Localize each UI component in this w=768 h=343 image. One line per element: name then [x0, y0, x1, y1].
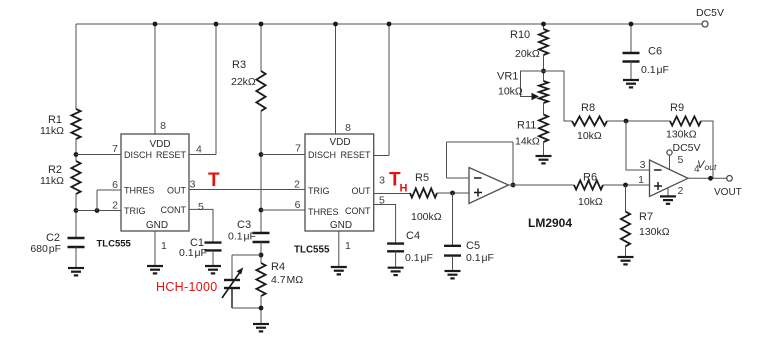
- svg-text:4.7 MΩ: 4.7 MΩ: [271, 274, 303, 286]
- resistor R8: [572, 116, 607, 125]
- capacitor C6: [623, 52, 640, 54]
- wire sensor left branch down: [231, 255, 233, 280]
- svg-text:2: 2: [112, 200, 118, 212]
- wire DISCH pin7 U1: [76, 154, 121, 156]
- svg-text:C4: C4: [406, 230, 420, 242]
- node junction rail pin8 U1: [153, 22, 158, 27]
- svg-text:R8: R8: [581, 102, 595, 114]
- wire C5 to ground: [452, 256, 454, 271]
- svg-text:DC5V: DC5V: [673, 142, 701, 154]
- node junction opamp1 plus: [450, 191, 455, 196]
- potentiometer VR1: [539, 81, 548, 103]
- svg-text:10kΩ: 10kΩ: [577, 130, 602, 142]
- wire R4 bottom: [260, 296, 262, 324]
- ground C2: [68, 267, 84, 269]
- resistor R2: [71, 161, 80, 194]
- wire VDD pin8 U2: [335, 24, 337, 134]
- terminal DC5V opamp2: [669, 155, 671, 170]
- wire R8 to R9: [607, 120, 670, 122]
- wire TRIG pin2 U1: [76, 210, 121, 212]
- node junction VR1 top: [541, 69, 546, 74]
- wire VDD pin8 U1: [154, 24, 156, 134]
- svg-text:VR1: VR1: [497, 71, 518, 83]
- svg-text:7: 7: [295, 143, 301, 155]
- svg-text:VDD: VDD: [329, 137, 350, 148]
- svg-text:130kΩ: 130kΩ: [639, 226, 670, 238]
- wire top DC5V power rail: [76, 23, 702, 25]
- wire R1 to R2: [75, 139, 77, 161]
- svg-text:100kΩ: 100kΩ: [411, 211, 442, 223]
- wire RESET riser U2: [388, 24, 390, 156]
- ground C4: [388, 267, 404, 269]
- ground C1: [205, 265, 221, 267]
- svg-text:DISCH: DISCH: [308, 150, 336, 160]
- svg-text:C6: C6: [648, 46, 662, 58]
- wire DISCH pin7 U2: [261, 154, 305, 156]
- svg-text:3: 3: [640, 159, 646, 171]
- wire C1 to ground: [212, 250, 214, 266]
- wire R6 to opamp2 plus: [603, 184, 650, 186]
- wire rail to C6: [630, 24, 632, 53]
- node junction R8 R9: [624, 119, 629, 124]
- svg-text:T: T: [208, 170, 220, 191]
- svg-text:10kΩ: 10kΩ: [578, 196, 603, 208]
- svg-text:CONT: CONT: [161, 205, 187, 215]
- wire rail to R10: [543, 24, 545, 29]
- wire CONT pin5 U2: [374, 205, 396, 244]
- resistor R4: [256, 263, 265, 296]
- svg-text:TRIG: TRIG: [308, 186, 330, 196]
- node junction rail pin8 U2: [333, 22, 338, 27]
- terminal VOUT: [727, 176, 733, 182]
- svg-text:H: H: [400, 183, 408, 195]
- wire R2 to C2: [75, 194, 77, 238]
- wire R10 to VR1: [543, 55, 545, 81]
- wire R9 to output node: [701, 121, 713, 178]
- node junction DISCH1: [74, 152, 79, 157]
- svg-text:OUT: OUT: [352, 186, 372, 196]
- terminal DC5V: [702, 21, 708, 27]
- wire C4 to ground: [395, 251, 397, 267]
- svg-text:C3: C3: [237, 219, 251, 231]
- resistor R10: [539, 29, 548, 55]
- wire R7 to ground: [625, 246, 627, 257]
- resistor R11: [539, 115, 548, 143]
- svg-text:1: 1: [638, 174, 644, 186]
- svg-text:3: 3: [379, 175, 385, 187]
- svg-text:0.1 μF: 0.1 μF: [179, 247, 207, 259]
- op-amp U3B LM2904 body: [650, 160, 689, 197]
- node junction DISCH2: [259, 152, 264, 157]
- wire opamp2 output: [688, 177, 727, 179]
- wire C2 to ground: [75, 247, 77, 268]
- svg-text:R3: R3: [232, 59, 246, 71]
- svg-text:10kΩ: 10kΩ: [498, 86, 523, 98]
- op-amp U3A plus symbol: [474, 192, 482, 194]
- capacitor C5: [452, 193, 454, 246]
- node junction rail RESET U1: [214, 22, 219, 27]
- node junction rail R10: [541, 22, 546, 27]
- wire opamp1 feedback right: [512, 142, 514, 185]
- svg-text:11kΩ: 11kΩ: [40, 125, 64, 137]
- node junction THRES2: [259, 208, 264, 213]
- svg-text:VOUT: VOUT: [714, 187, 742, 198]
- wire left column from rail down to R1: [75, 24, 77, 109]
- svg-text:7: 7: [112, 143, 118, 155]
- op-amp U3A minus symbol: [474, 177, 482, 179]
- svg-text:THRES: THRES: [308, 207, 339, 217]
- svg-text:6: 6: [295, 199, 301, 211]
- resistor R1: [71, 109, 80, 139]
- svg-text:5: 5: [678, 154, 684, 166]
- ground R11: [536, 155, 552, 157]
- svg-text:OUT: OUT: [167, 186, 187, 196]
- svg-text:RESET: RESET: [156, 150, 187, 160]
- wire opamp1 minus input: [447, 177, 470, 179]
- svg-text:5: 5: [379, 195, 385, 207]
- svg-text:R4: R4: [271, 261, 285, 273]
- node junction sensor top: [259, 253, 264, 258]
- wire opamp1 output to R6: [509, 184, 575, 186]
- svg-text:LM2904: LM2904: [528, 216, 572, 230]
- node junction rail C6: [629, 22, 634, 27]
- svg-text:CONT: CONT: [345, 206, 371, 216]
- node junction sensor bottom: [259, 306, 264, 311]
- svg-text:1: 1: [345, 240, 351, 252]
- svg-text:DC5V: DC5V: [696, 7, 724, 19]
- svg-text:R11: R11: [517, 120, 536, 132]
- capacitor C1: [205, 241, 222, 243]
- svg-text:4: 4: [196, 144, 202, 156]
- node junction TRIG1: [74, 208, 79, 213]
- svg-text:R10: R10: [510, 29, 530, 41]
- op-amp U3B plus symbol: [654, 185, 662, 187]
- svg-text:2: 2: [678, 185, 684, 197]
- svg-text:C5: C5: [466, 240, 480, 252]
- node junction rail RESET U2: [387, 22, 392, 27]
- svg-text:GND: GND: [146, 220, 168, 231]
- resistor R6: [574, 180, 603, 189]
- svg-text:4: 4: [694, 164, 700, 175]
- svg-text:0.1 μF: 0.1 μF: [228, 231, 256, 243]
- wire RESET pin4 U1: [189, 154, 216, 156]
- svg-text:8: 8: [345, 122, 351, 134]
- svg-text:THRES: THRES: [124, 186, 155, 196]
- svg-text:RESET: RESET: [340, 150, 371, 160]
- op-amp U3B minus symbol: [654, 169, 662, 171]
- wire R8R9 node down to opamp2 minus: [626, 121, 650, 170]
- svg-text:0.1 μF: 0.1 μF: [466, 252, 494, 264]
- ground R7: [618, 256, 634, 258]
- wire rail to R3: [260, 24, 262, 71]
- wire VR1 tap to R8: [544, 71, 573, 121]
- node junction output: [708, 176, 713, 181]
- wire R7 top: [625, 185, 627, 212]
- svg-text:3: 3: [190, 179, 196, 191]
- svg-text:2: 2: [294, 179, 300, 191]
- wire THRES pin6 U1: [97, 189, 121, 191]
- wire VR1 to R11: [543, 103, 545, 115]
- wire RESET riser U1: [215, 24, 217, 155]
- svg-text:0.1 μF: 0.1 μF: [405, 252, 433, 264]
- wire sensor top branch: [232, 254, 261, 256]
- wire OUT pin3 U2: [374, 193, 410, 195]
- svg-text:11kΩ: 11kΩ: [40, 175, 64, 187]
- svg-text:HCH-1000: HCH-1000: [156, 280, 217, 294]
- wire R3 down to C3: [260, 111, 262, 233]
- wire THRES branch vertical: [96, 190, 98, 211]
- svg-text:TLC555: TLC555: [294, 245, 330, 256]
- wire CONT pin5 U1: [189, 209, 213, 242]
- svg-text:VDD: VDD: [149, 139, 170, 150]
- svg-text:DISCH: DISCH: [124, 150, 152, 160]
- svg-text:680 pF: 680 pF: [30, 243, 61, 255]
- IC U1 TLC555 body: [121, 134, 189, 231]
- ground sensor: [253, 323, 269, 325]
- resistor R3: [256, 71, 265, 111]
- svg-text:R6: R6: [583, 172, 597, 184]
- svg-text:R5: R5: [415, 172, 429, 184]
- wire RESET pin4 U2: [374, 155, 389, 157]
- node junction opamp1 output: [511, 183, 516, 188]
- svg-text:22kΩ: 22kΩ: [231, 76, 256, 88]
- wire VR1 wiper loop: [521, 71, 544, 97]
- wire R11 to ground: [543, 142, 545, 156]
- resistor R7: [621, 212, 630, 247]
- sensor HCH-1000 variable capacitor: [224, 279, 240, 281]
- resistor R5: [410, 188, 437, 197]
- wire opamp1 feedback top: [447, 141, 514, 143]
- ground C6: [623, 79, 639, 81]
- IC U2 TLC555 body: [305, 134, 374, 231]
- resistor R9: [670, 116, 701, 125]
- node junction R6 R7: [623, 183, 628, 188]
- wire C6 to ground: [630, 62, 632, 81]
- ground opamp2: [660, 195, 676, 197]
- svg-text:6: 6: [112, 179, 118, 191]
- ground C5: [445, 270, 461, 272]
- capacitor C4: [387, 242, 404, 244]
- svg-text:0.1 μF: 0.1 μF: [641, 64, 669, 76]
- wire R5 to opamp1 plus: [437, 192, 469, 194]
- svg-text:TLC555: TLC555: [97, 239, 132, 250]
- node junction THRES branch: [95, 208, 100, 213]
- node junction rail R3: [259, 22, 264, 27]
- wire opamp1 feedback left: [446, 142, 448, 178]
- svg-text:R9: R9: [670, 102, 684, 114]
- ground U2 pin1: [331, 266, 347, 268]
- svg-text:GND: GND: [330, 220, 352, 231]
- wire GND pin1 U2: [338, 231, 340, 267]
- wire sensor bottom branch: [232, 307, 261, 309]
- op-amp U3A LM2904 body: [469, 168, 509, 204]
- capacitor C2: [68, 237, 85, 239]
- wire OUT pin3 U1 to TRIG U2: [189, 189, 305, 191]
- svg-text:out: out: [705, 162, 717, 172]
- svg-text:TRIG: TRIG: [124, 206, 146, 216]
- svg-text:1: 1: [161, 240, 167, 252]
- svg-text:5: 5: [198, 201, 204, 213]
- wire GND pin1 U1: [154, 231, 156, 266]
- wire opamp2 pin2 ground: [667, 187, 669, 196]
- wire THRES pin6 U2: [261, 209, 305, 211]
- svg-text:130kΩ: 130kΩ: [666, 129, 697, 141]
- capacitor C3: [253, 232, 270, 234]
- ground U1 pin1: [147, 265, 163, 267]
- svg-text:8: 8: [160, 120, 166, 132]
- wire C3 to sensor node: [260, 242, 262, 263]
- svg-text:14kΩ: 14kΩ: [515, 136, 540, 148]
- svg-text:20kΩ: 20kΩ: [515, 48, 540, 60]
- svg-text:R7: R7: [639, 211, 653, 223]
